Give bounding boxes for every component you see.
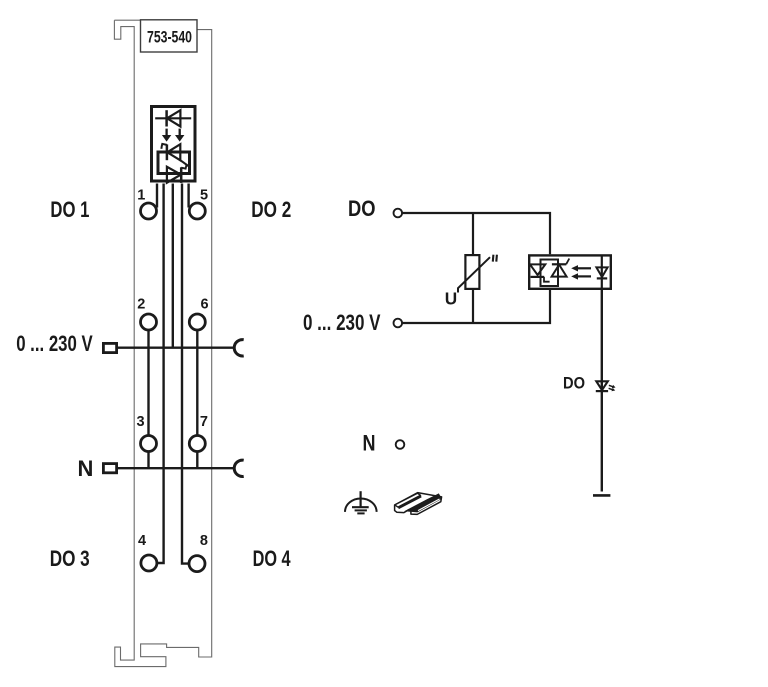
terminal 3 [141, 436, 157, 452]
SCR D2 (points left) [161, 144, 180, 160]
230V input terminal circle [394, 319, 403, 328]
svg-text:DO: DO [348, 196, 376, 221]
wire terminal 7 to N rail [196, 451, 198, 468]
230V jumper contact square [103, 343, 116, 352]
svg-text:5: 5 [200, 188, 208, 204]
svg-text:8: 8 [200, 533, 208, 549]
N jumper contact square [103, 464, 116, 473]
light arrow b [175, 129, 184, 142]
label box 753-540 [141, 20, 198, 52]
varistor branch wire bottom [472, 290, 474, 323]
DIN rail icon [395, 493, 442, 515]
opto LED wire [601, 255, 603, 290]
LED light arrow 1 [609, 385, 616, 388]
svg-text:7: 7 [200, 414, 208, 430]
varistor RV1 body [465, 255, 479, 289]
LED light arrow 2 [609, 388, 616, 391]
svg-text:DO: DO [563, 374, 585, 393]
230V rail [118, 347, 233, 349]
opto light arrow lower [571, 273, 591, 279]
wire optobox to indicator LED [601, 290, 603, 492]
module body outline (753-540 housing) [114, 20, 211, 666]
wire to terminal 5 [187, 184, 189, 208]
wire 230V rail to terminal 7 [196, 348, 198, 436]
varistor tick marks [493, 255, 497, 262]
wire terminal 3 to N rail [147, 451, 149, 468]
ground bar [593, 494, 610, 497]
inner box (antiparallel pair) [158, 152, 190, 174]
svg-text:1: 1 [137, 188, 145, 204]
SCR left (down) [530, 264, 550, 281]
wire to terminal 1 [156, 184, 158, 208]
svg-text:2: 2 [137, 297, 145, 313]
terminal 2 [141, 314, 157, 330]
SCR D3 (points right) [167, 164, 187, 183]
wire LED box to terminal 4 [157, 184, 164, 564]
svg-text:6: 6 [201, 297, 209, 313]
svg-text:753-540: 753-540 [147, 28, 192, 46]
inner rect of triac [541, 260, 559, 287]
svg-text:3: 3 [136, 414, 144, 430]
svg-text:DO 2: DO 2 [251, 197, 291, 222]
opto LED (points down) [596, 267, 607, 278]
status LED D1 (points left) [155, 110, 191, 126]
terminal 5 [189, 203, 205, 219]
diagonal connector [180, 160, 189, 166]
terminal 4 [141, 555, 157, 571]
svg-text:N: N [363, 431, 376, 456]
functional earth symbol [345, 491, 377, 513]
opto light arrow upper [571, 265, 591, 271]
svg-text:U: U [445, 289, 457, 309]
wire 230V rail to terminal 3 [147, 348, 149, 436]
svg-text:DO 1: DO 1 [50, 197, 89, 222]
wire terminal 6 to 230V rail [196, 330, 198, 348]
wire terminal 2 to 230V rail [147, 330, 149, 348]
wire LED box to 230V rail [172, 184, 174, 348]
wire LED box to terminal 8 [182, 184, 189, 564]
svg-text:0 ... 230 V: 0 ... 230 V [303, 310, 381, 335]
svg-text:N: N [78, 456, 94, 481]
terminal 7 [189, 436, 205, 452]
varistor branch wire top [472, 213, 474, 254]
N terminal circle right [396, 440, 405, 449]
indicator LED DO (points down) [596, 381, 608, 391]
terminal 1 [141, 203, 157, 219]
LED block box [152, 107, 196, 182]
svg-text:DO 4: DO 4 [253, 546, 292, 571]
optocoupler U1 box [529, 255, 611, 288]
N cage clamp C [234, 460, 243, 476]
DO rail wire [402, 213, 550, 254]
DO input terminal circle [394, 209, 403, 218]
svg-text:DO 3: DO 3 [50, 546, 90, 571]
terminal 8 [189, 556, 205, 572]
230V rail wire right [402, 290, 550, 323]
svg-text:4: 4 [138, 533, 146, 549]
N rail [118, 467, 233, 469]
light arrow a [162, 129, 171, 142]
terminal 6 [189, 314, 205, 330]
varistor diagonal [458, 257, 490, 292]
230V cage clamp C [234, 340, 243, 356]
svg-text:0 ... 230 V: 0 ... 230 V [16, 331, 93, 356]
SCR right (up) [552, 259, 570, 277]
